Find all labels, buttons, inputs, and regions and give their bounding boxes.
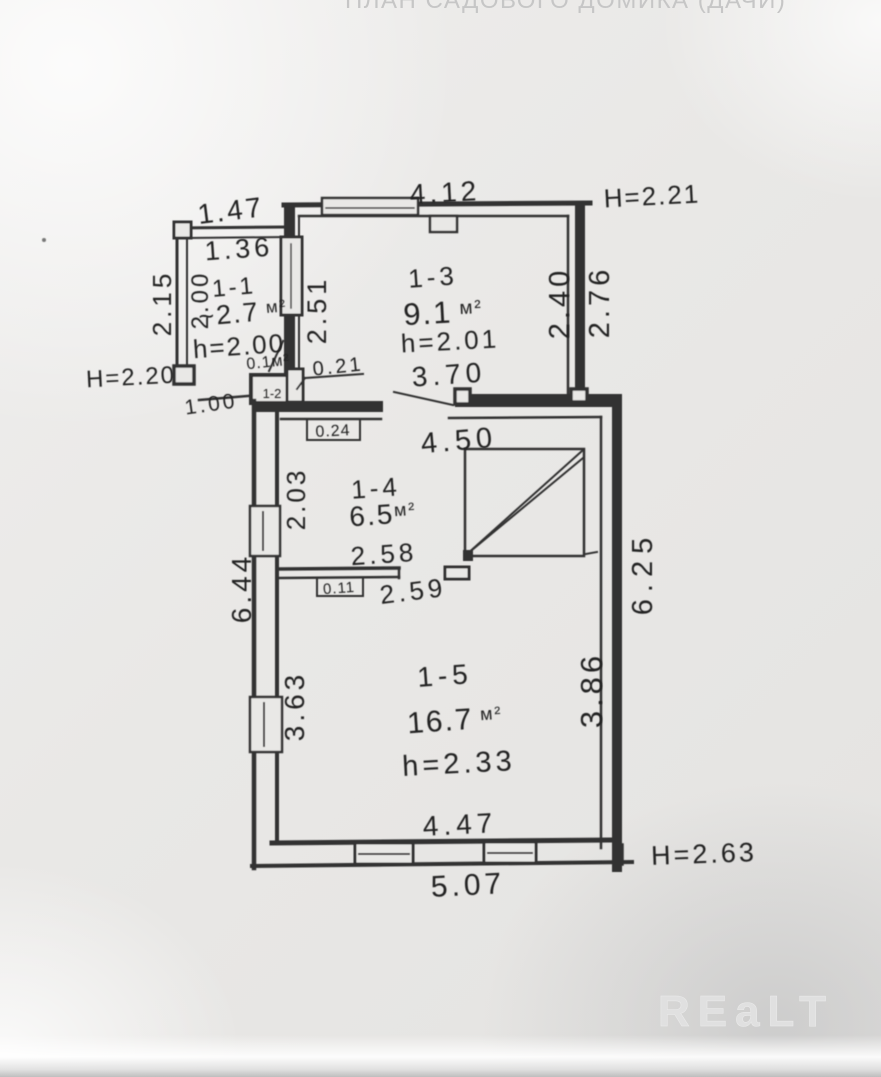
svg-text:1-3: 1-3 (407, 260, 459, 293)
svg-text:h=2.01: h=2.01 (400, 323, 500, 358)
svg-text:1.36: 1.36 (204, 232, 274, 267)
svg-text:6.44: 6.44 (226, 553, 257, 624)
svg-text:2.51: 2.51 (302, 276, 332, 345)
svg-text:0.11: 0.11 (322, 579, 355, 598)
svg-text:0.24: 0.24 (315, 422, 351, 441)
svg-text:2.03: 2.03 (281, 468, 311, 531)
svg-text:3.63: 3.63 (279, 671, 310, 742)
svg-text:4.50: 4.50 (420, 422, 499, 461)
svg-text:5.07: 5.07 (430, 867, 506, 904)
svg-text:16.7 м²: 16.7 м² (406, 701, 504, 741)
svg-text:H=2.20: H=2.20 (85, 362, 176, 394)
svg-text:h=2.33: h=2.33 (401, 745, 516, 783)
svg-text:2.58: 2.58 (350, 537, 419, 572)
svg-text:H=2.21: H=2.21 (603, 178, 701, 213)
svg-text:4.12: 4.12 (409, 175, 481, 210)
svg-text:1-2: 1-2 (263, 386, 282, 401)
svg-text:4.47: 4.47 (422, 807, 498, 842)
svg-text:H=2.63: H=2.63 (651, 837, 758, 871)
svg-text:0.21: 0.21 (312, 353, 365, 380)
svg-text:2.76: 2.76 (584, 266, 616, 338)
svg-text:1-5: 1-5 (416, 658, 473, 693)
svg-text:3.86: 3.86 (574, 652, 609, 728)
svg-text:2.15: 2.15 (147, 270, 177, 337)
svg-text:1.47: 1.47 (196, 191, 266, 230)
svg-text:6.5м²: 6.5м² (348, 497, 417, 533)
svg-text:6.25: 6.25 (627, 531, 659, 615)
svg-text:0.1м²: 0.1м² (246, 352, 291, 373)
svg-text:ПЛАН САДОВОГО ДОМИКА (ДАЧИ): ПЛАН САДОВОГО ДОМИКА (ДАЧИ) (345, 0, 786, 14)
svg-text:REaLT: REaLT (658, 987, 834, 1036)
svg-text:3.70: 3.70 (411, 356, 487, 392)
svg-text:2.00: 2.00 (187, 271, 214, 330)
svg-text:1.00: 1.00 (183, 389, 239, 419)
svg-text:2.40: 2.40 (544, 267, 576, 339)
